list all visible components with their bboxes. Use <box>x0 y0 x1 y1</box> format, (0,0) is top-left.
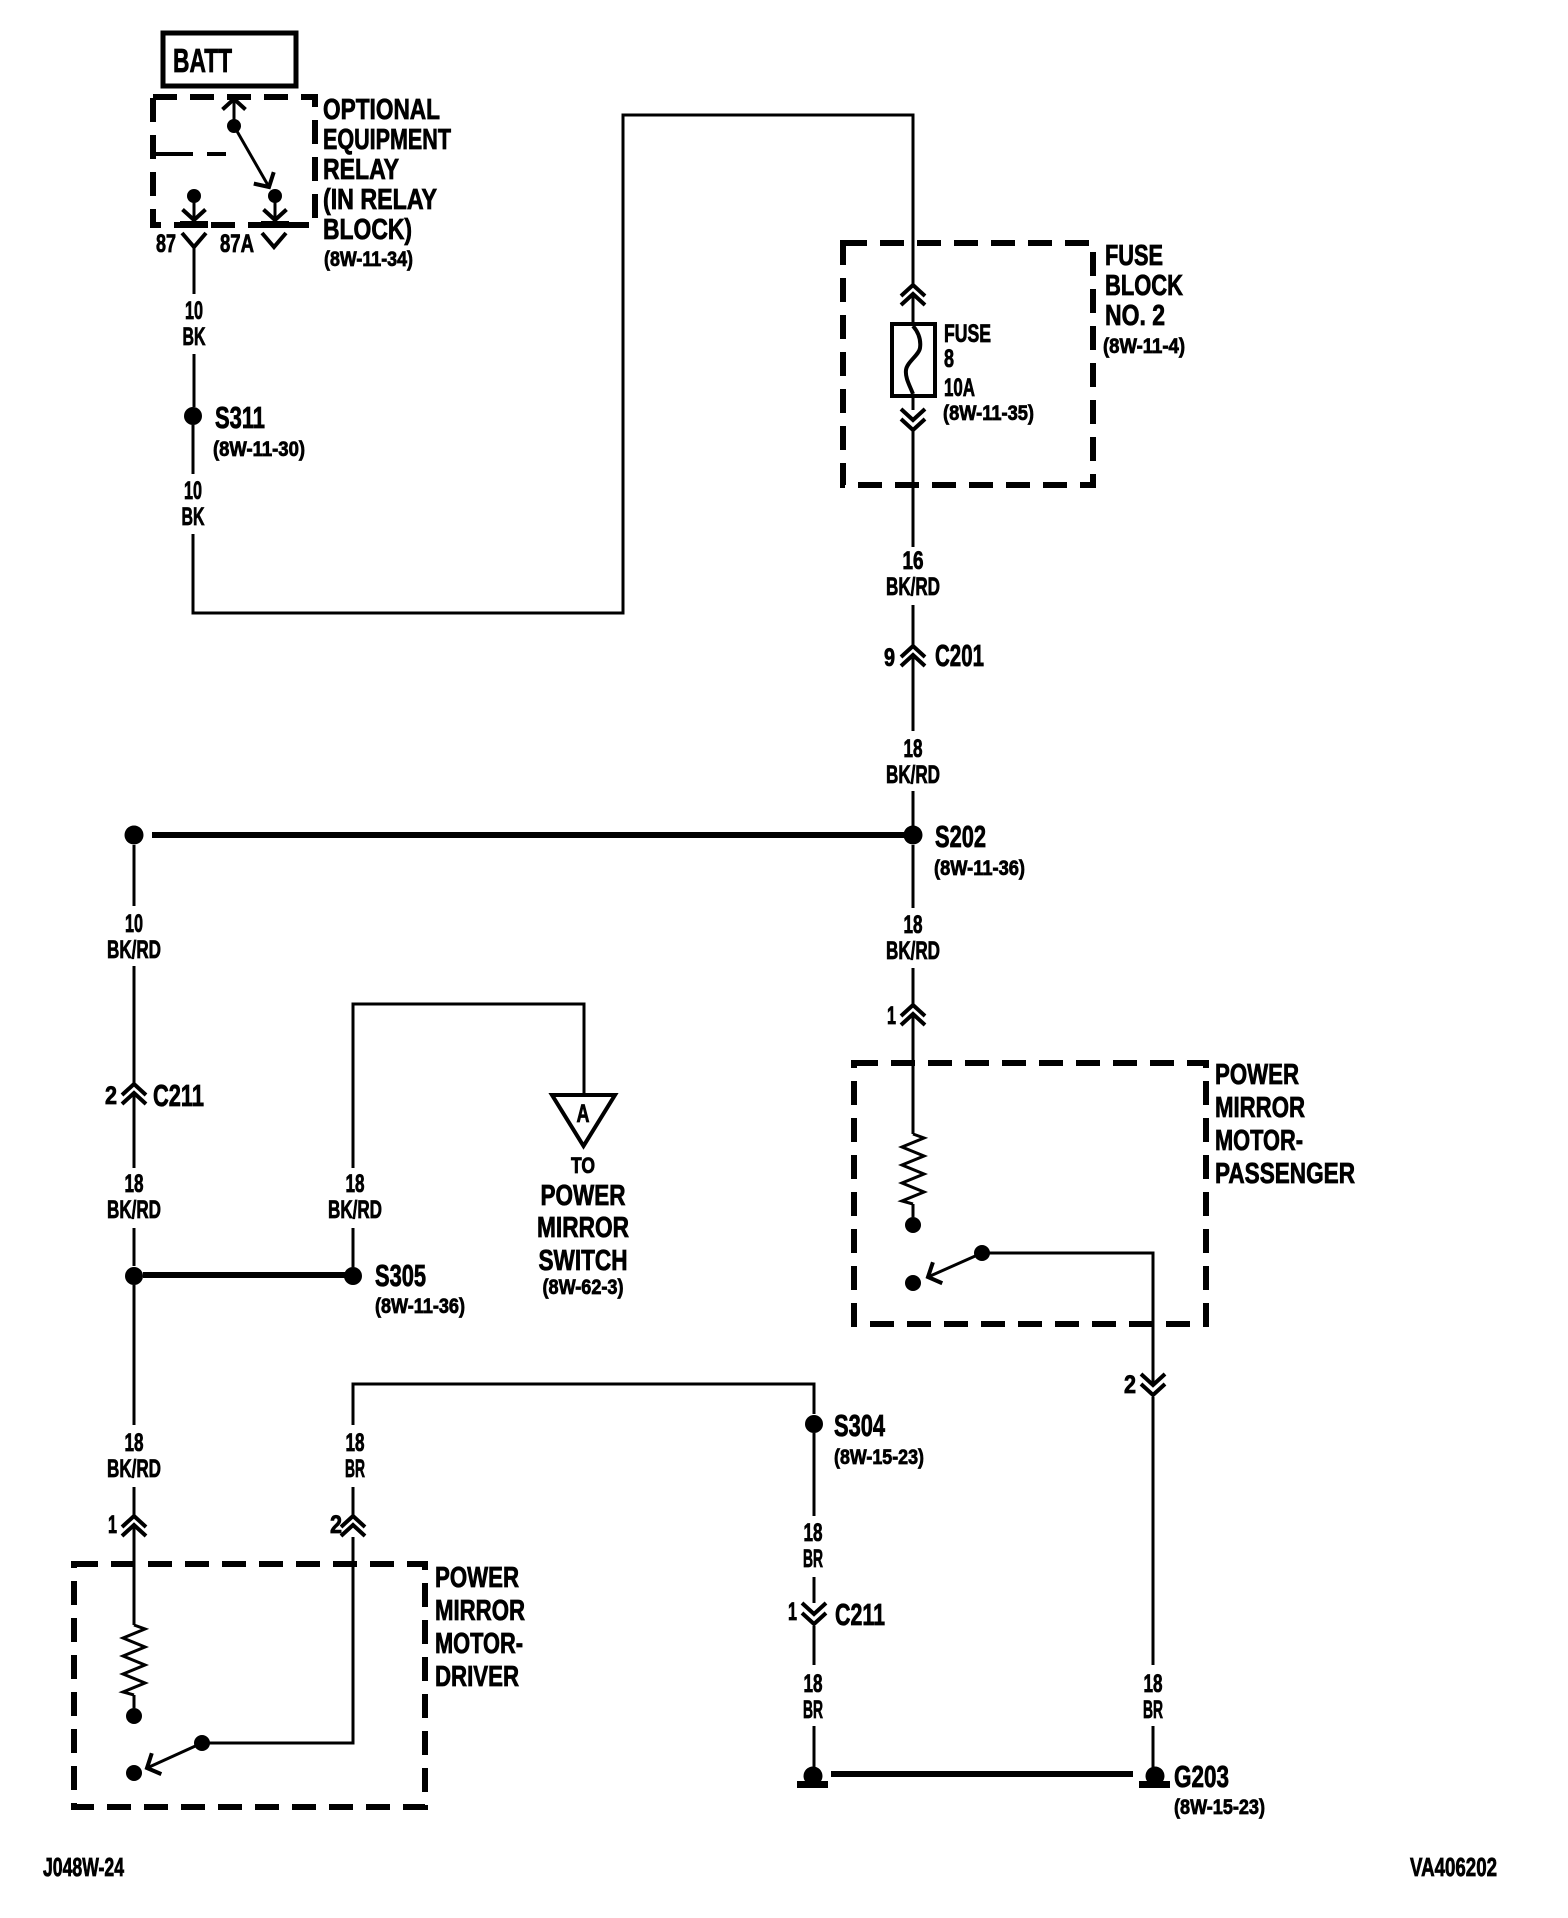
svg-text:S305: S305 <box>375 1258 426 1293</box>
svg-text:EQUIPMENT: EQUIPMENT <box>323 124 451 156</box>
svg-text:2: 2 <box>330 1511 342 1539</box>
connector C211 pin 1 <box>788 1597 885 1632</box>
svg-text:18: 18 <box>125 1429 144 1457</box>
svg-text:BK/RD: BK/RD <box>886 761 940 789</box>
svg-text:BLOCK: BLOCK <box>1105 270 1183 302</box>
svg-text:C201: C201 <box>935 638 984 673</box>
splice S305 <box>344 1258 465 1318</box>
svg-text:18: 18 <box>346 1429 365 1457</box>
svg-text:FUSE: FUSE <box>1105 240 1163 272</box>
wire resistor to node <box>912 1204 915 1217</box>
svg-text:S311: S311 <box>215 400 265 435</box>
svg-text:C211: C211 <box>835 1597 885 1632</box>
svg-text:(8W-11-34): (8W-11-34) <box>324 248 413 271</box>
relay arrow to BATT <box>233 99 236 126</box>
wire driver to S304 <box>353 1384 814 1425</box>
svg-text:OPTIONAL: OPTIONAL <box>323 94 440 126</box>
connector chevrons out of fuse block <box>901 409 925 420</box>
wire S305 up branch <box>352 1228 355 1267</box>
wire 87 to label <box>193 247 196 294</box>
svg-text:PASSENGER: PASSENGER <box>1215 1158 1355 1190</box>
ground bar left <box>797 1781 828 1788</box>
junction node left <box>125 1267 143 1285</box>
relay label <box>323 94 451 271</box>
wire to label 16 BK/RD <box>912 431 915 547</box>
wire to driver pin 1 <box>133 1487 136 1515</box>
svg-text:8: 8 <box>944 345 954 373</box>
svg-text:(8W-11-36): (8W-11-36) <box>375 1295 465 1318</box>
svg-text:TO: TO <box>571 1153 595 1178</box>
connector chevrons into fuse block <box>901 285 925 296</box>
svg-text:2: 2 <box>105 1082 117 1110</box>
svg-text:18: 18 <box>804 1519 823 1547</box>
driver pin 2 connector chevrons <box>330 1511 365 1539</box>
svg-text:BK/RD: BK/RD <box>886 937 940 965</box>
svg-text:BLOCK): BLOCK) <box>323 214 412 246</box>
svg-text:J048W-24: J048W-24 <box>43 1852 124 1882</box>
pin 87A connector half symbol <box>262 233 286 247</box>
relay pin 87A arrow <box>274 198 277 220</box>
wire left column down <box>133 845 136 906</box>
connector C211 pin 2 <box>105 1078 204 1113</box>
svg-text:POWER: POWER <box>435 1562 519 1594</box>
svg-text:MOTOR-: MOTOR- <box>435 1628 523 1660</box>
wire C211 down <box>813 1626 816 1665</box>
passenger motor label <box>1215 1059 1355 1190</box>
svg-text:(8W-11-36): (8W-11-36) <box>934 857 1025 880</box>
svg-text:POWER: POWER <box>1215 1059 1299 1091</box>
node left of S202 bus <box>125 826 144 845</box>
passenger switch arm <box>928 1253 982 1277</box>
wire label 18 BK/RD <box>886 911 940 965</box>
wire up and over to switch feed <box>353 1004 584 1168</box>
fuse value label <box>943 320 1034 425</box>
driver winding node <box>126 1708 142 1724</box>
svg-text:BK/RD: BK/RD <box>107 936 161 964</box>
wire to C201 <box>912 605 915 645</box>
wire label 18 BK/RD <box>886 735 940 789</box>
ground bus wire <box>831 1771 1133 1777</box>
wire resistor to node <box>133 1695 136 1708</box>
driver switch pivot node <box>194 1735 210 1751</box>
wire down to driver label <box>133 1285 136 1425</box>
relay common terminal node <box>227 119 241 133</box>
svg-text:BK: BK <box>183 323 206 351</box>
svg-text:BR: BR <box>803 1696 823 1724</box>
svg-text:G203: G203 <box>1174 1759 1229 1794</box>
wire label 18 BK/RD <box>107 1170 161 1224</box>
passenger motor winding resistor <box>902 1134 924 1204</box>
svg-text:2: 2 <box>1124 1371 1136 1399</box>
svg-text:(8W-11-4): (8W-11-4) <box>1103 335 1185 358</box>
svg-text:VA406202: VA406202 <box>1410 1852 1497 1882</box>
wire label 18 BR <box>1143 1670 1163 1724</box>
svg-text:BK: BK <box>182 503 205 531</box>
svg-text:18: 18 <box>346 1170 365 1198</box>
relay 87 internal node <box>187 189 201 203</box>
off-page symbol A to power mirror switch <box>552 1095 615 1146</box>
svg-text:A: A <box>577 1100 590 1128</box>
ground G203 <box>1139 1759 1265 1819</box>
power mirror motor driver box (dashed) <box>74 1564 425 1807</box>
svg-text:1: 1 <box>887 1002 896 1030</box>
wire driver pivot to pin 2 <box>202 1537 353 1743</box>
svg-text:S304: S304 <box>834 1408 886 1443</box>
wire loop to fuse block <box>193 115 913 613</box>
wire to G203 <box>1152 1726 1155 1767</box>
passenger winding node <box>905 1217 921 1233</box>
svg-text:BATT: BATT <box>173 42 232 79</box>
fuse 8 element <box>892 324 935 396</box>
driver switch contact node <box>126 1765 142 1781</box>
relay pin 87A terminal bar <box>261 221 289 228</box>
svg-text:MIRROR: MIRROR <box>435 1595 525 1627</box>
fuse block label <box>1103 240 1185 358</box>
svg-text:C211: C211 <box>153 1078 204 1113</box>
svg-text:DRIVER: DRIVER <box>435 1661 519 1693</box>
svg-text:BK/RD: BK/RD <box>107 1196 161 1224</box>
relay movable arm (to 87A) <box>234 126 269 187</box>
wire to passenger pin 1 <box>912 968 915 1004</box>
passenger switch contact node <box>905 1275 921 1291</box>
relay 87A internal node <box>268 189 282 203</box>
driver pin 1 connector chevrons <box>108 1511 146 1539</box>
svg-text:BR: BR <box>1143 1696 1163 1724</box>
svg-text:SWITCH: SWITCH <box>539 1245 628 1277</box>
wire S202 down to passenger <box>912 845 915 908</box>
wire C211 to label <box>133 1095 136 1168</box>
optional equipment relay box (dashed) <box>153 97 315 225</box>
wire passenger pivot to pin 2 <box>982 1253 1153 1383</box>
svg-text:BR: BR <box>345 1455 365 1483</box>
relay pin 87 arrow <box>193 198 196 220</box>
wire label 10 BK <box>183 297 206 351</box>
wire label 18 BR <box>803 1519 823 1573</box>
wire label 10 BK/RD <box>107 910 161 964</box>
wire label 10 BK (second) <box>182 477 205 531</box>
driver switch arm <box>147 1743 202 1768</box>
svg-text:(IN RELAY: (IN RELAY <box>323 184 437 216</box>
splice S202 <box>904 819 1026 880</box>
power mirror motor passenger box (dashed) <box>854 1063 1206 1324</box>
wire to S305 junction <box>133 1228 136 1266</box>
svg-text:87: 87 <box>156 230 176 258</box>
svg-text:BK/RD: BK/RD <box>886 573 940 601</box>
svg-text:1: 1 <box>108 1511 117 1539</box>
svg-text:1: 1 <box>788 1598 797 1626</box>
S202 distribution bus wire <box>152 832 904 838</box>
svg-text:POWER: POWER <box>541 1180 626 1212</box>
wire to S202 <box>912 791 915 826</box>
wire label to S311 <box>193 354 196 407</box>
fuse block no.2 box (dashed) <box>843 243 1093 485</box>
svg-text:10: 10 <box>184 477 202 505</box>
driver motor label <box>435 1562 525 1693</box>
wire label 18 BR <box>803 1670 823 1724</box>
wire fuse to exit chevrons <box>912 396 915 410</box>
svg-text:BK/RD: BK/RD <box>328 1196 382 1224</box>
svg-text:MIRROR: MIRROR <box>537 1212 629 1244</box>
svg-text:18: 18 <box>1144 1670 1163 1698</box>
wire S311 down <box>192 425 195 474</box>
wire to C211 pin1 <box>813 1577 816 1603</box>
svg-text:18: 18 <box>804 1670 823 1698</box>
driver motor winding resistor <box>123 1625 145 1695</box>
wire C201 to label <box>912 658 915 731</box>
splice S304 <box>805 1408 924 1469</box>
S305 bus wire <box>143 1272 345 1278</box>
svg-text:(8W-62-3): (8W-62-3) <box>543 1276 624 1299</box>
wire to C211 <box>133 966 136 1083</box>
wire into driver box <box>133 1527 136 1625</box>
connector C201 pin 9 <box>884 638 984 673</box>
wire passenger pin2 down <box>1152 1397 1155 1665</box>
wire label 16 BK/RD <box>886 547 940 601</box>
svg-text:87A: 87A <box>220 230 254 258</box>
svg-text:RELAY: RELAY <box>323 154 399 186</box>
passenger pin 2 connector chevrons <box>1124 1371 1165 1399</box>
wire into passenger box <box>912 1016 915 1134</box>
svg-text:MOTOR-: MOTOR- <box>1215 1125 1303 1157</box>
svg-text:10A: 10A <box>944 374 975 402</box>
svg-text:BR: BR <box>803 1545 823 1573</box>
relay internal dashed separator <box>153 152 226 156</box>
svg-text:BK/RD: BK/RD <box>107 1455 161 1483</box>
svg-text:(8W-11-35): (8W-11-35) <box>943 402 1034 425</box>
svg-text:10: 10 <box>185 297 203 325</box>
passenger switch pivot node <box>974 1245 990 1261</box>
svg-text:S202: S202 <box>935 819 986 854</box>
wire chevron to fuse <box>912 296 915 325</box>
pin 87 connector half symbol <box>182 233 206 247</box>
svg-text:18: 18 <box>125 1170 144 1198</box>
svg-text:FUSE: FUSE <box>944 320 991 348</box>
wire S304 down <box>813 1433 816 1516</box>
svg-text:(8W-15-23): (8W-15-23) <box>1174 1796 1265 1819</box>
wire label 18 BR <box>345 1429 365 1483</box>
svg-text:16: 16 <box>903 547 924 575</box>
svg-text:10: 10 <box>125 910 143 938</box>
switch feed label <box>537 1153 629 1299</box>
svg-text:9: 9 <box>884 644 895 672</box>
wire to ground node <box>813 1726 816 1767</box>
svg-text:NO. 2: NO. 2 <box>1105 300 1165 332</box>
ground node left <box>804 1767 823 1786</box>
passenger pin 1 connector chevrons <box>887 1002 925 1030</box>
svg-text:(8W-15-23): (8W-15-23) <box>834 1446 924 1469</box>
wire label 18 BK/RD <box>328 1170 382 1224</box>
svg-text:MIRROR: MIRROR <box>1215 1092 1305 1124</box>
svg-text:18: 18 <box>904 911 923 939</box>
wire label 18 BK/RD <box>107 1429 161 1483</box>
wire driver pin2 to label <box>352 1487 355 1515</box>
svg-text:18: 18 <box>904 735 923 763</box>
relay pin 87 terminal bar <box>180 221 208 228</box>
battery feed box BATT <box>163 33 296 86</box>
splice S311 <box>184 400 305 461</box>
svg-text:(8W-11-30): (8W-11-30) <box>213 438 305 461</box>
